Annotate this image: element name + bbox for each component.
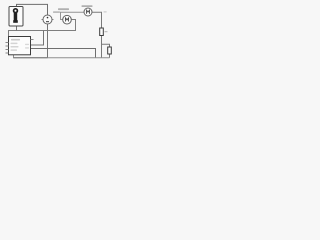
label above M2 (smudge) (82, 5, 93, 7)
temperature sensor S1 (box with thermometer icon) (9, 7, 23, 27)
pin stub U1 right top (31, 39, 34, 41)
wire bus mid: from U1 top-left pin to node under M1 (9, 20, 76, 37)
wire: U1 right pin up to mid bus (31, 31, 44, 46)
wire: motor M2 right lead to right vertical rail (92, 12, 102, 28)
label right of node corner (smudge) (104, 11, 107, 12)
wire: right rail below resistor R1 (101, 36, 103, 58)
motor M1 (circle with M) (63, 15, 72, 24)
wire long mid-low: U1 right pin to right drop (31, 49, 96, 58)
label above M1 line 1 (smudge) (58, 8, 69, 10)
wire: source V1 bottom down through buses to bottom rail (47, 24, 49, 58)
wire bottom rail dark left part (14, 57, 48, 59)
wire top: sensor top to source V1 top (17, 4, 48, 15)
pin stubs U1 left (6, 43, 9, 54)
resistor R1 (vertical) (100, 28, 104, 36)
label R1 value (105, 31, 108, 33)
wire: resistor R2 bottom stub (109, 54, 111, 58)
resistor R2 (vertical) (108, 47, 112, 54)
U1 internal pin labels (smudges) (11, 39, 30, 51)
wire bottom rail (14, 55, 110, 58)
label above M1 line 2 (smudge) (53, 11, 60, 13)
wire: sensor bottom pin drop (16, 27, 18, 31)
dc source V1 (circle with polarity marks) (42, 15, 54, 24)
microcontroller U1 (box with pins) (6, 37, 34, 55)
motor M2 (circle with M) (84, 8, 92, 16)
wire: motor M1 left lead up and over to motor M2 left (61, 12, 85, 19)
wire: branch to resistor R2 (102, 44, 110, 47)
